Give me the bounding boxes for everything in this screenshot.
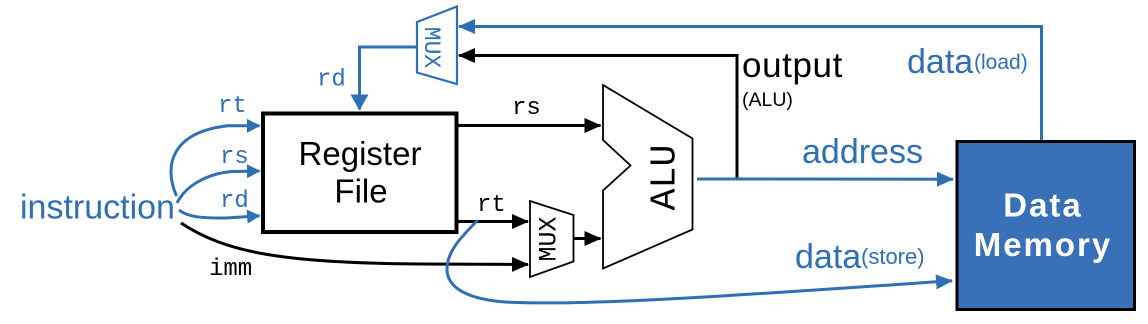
svg-text:rs: rs bbox=[220, 144, 249, 171]
svg-text:Memory: Memory bbox=[974, 226, 1113, 263]
svg-text:rt: rt bbox=[477, 192, 506, 219]
svg-text:data: data bbox=[795, 238, 861, 276]
svg-text:address: address bbox=[802, 133, 923, 171]
svg-text:rd: rd bbox=[317, 67, 346, 94]
svg-text:imm: imm bbox=[209, 256, 252, 283]
wire imm curve from instruction to MUX M2 input 1 bbox=[181, 223, 528, 265]
wire rs: Register File to ALU input A bbox=[458, 124, 601, 127]
svg-text:(ALU): (ALU) bbox=[742, 89, 793, 111]
wire data(load) from Data Memory top to MUX M1 input 0 bbox=[459, 27, 1042, 141]
svg-text:File: File bbox=[334, 173, 387, 210]
mux M1 (write-back select) bbox=[417, 7, 457, 85]
svg-text:(load): (load) bbox=[974, 51, 1028, 74]
wire instruction to rt port curve bbox=[171, 126, 260, 196]
svg-text:data: data bbox=[907, 43, 973, 81]
register file RF bbox=[263, 114, 457, 233]
mux M2 (ALU operand select) bbox=[530, 201, 574, 277]
svg-text:MUX: MUX bbox=[535, 216, 564, 261]
svg-text:rd: rd bbox=[220, 188, 249, 215]
svg-text:Register: Register bbox=[299, 135, 422, 172]
ALU bbox=[603, 85, 693, 269]
wire MUX M1 output to Register File rd write port bbox=[360, 47, 418, 110]
svg-text:rt: rt bbox=[218, 93, 247, 120]
wire data(store) curve from rt node to Data Memory bbox=[447, 221, 952, 303]
wire instruction to rs port curve bbox=[177, 171, 260, 203]
svg-text:output: output bbox=[742, 46, 843, 85]
svg-text:(store): (store) bbox=[861, 244, 925, 269]
wire ALU output (black) up to MUX M1 input 1 bbox=[459, 56, 737, 180]
svg-text:rs: rs bbox=[512, 95, 541, 122]
svg-text:MUX: MUX bbox=[418, 27, 444, 69]
svg-text:Data: Data bbox=[1003, 187, 1083, 224]
wire address: ALU output to Data Memory bbox=[697, 178, 953, 181]
wire MUX M2 output to ALU input B bbox=[574, 237, 601, 240]
svg-text:instruction: instruction bbox=[20, 189, 175, 227]
data memory box bbox=[957, 142, 1135, 310]
svg-text:ALU: ALU bbox=[645, 145, 686, 211]
wire rt: Register File to MUX M2 input 0 bbox=[458, 220, 528, 223]
wire instruction to rd port curve bbox=[179, 210, 260, 218]
